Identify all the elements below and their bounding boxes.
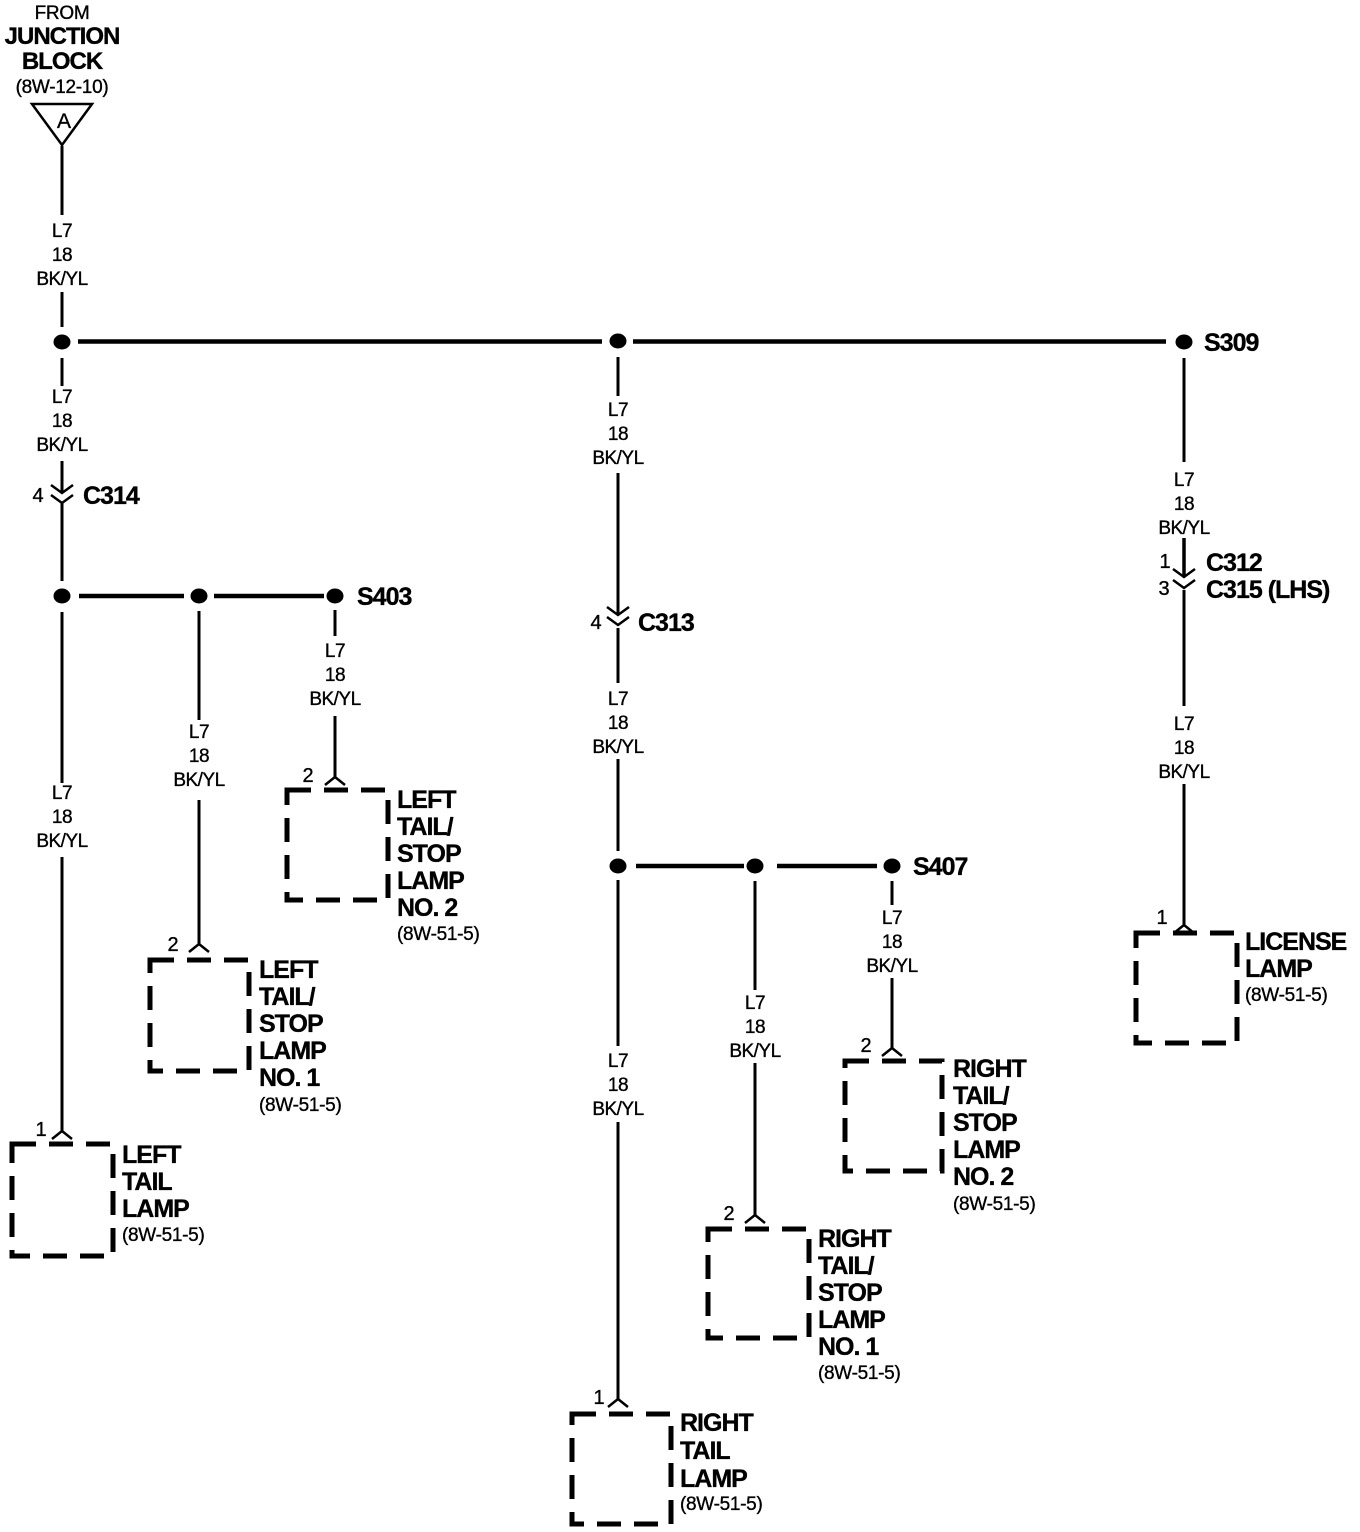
svg-text:TAIL/: TAIL/ — [818, 1252, 875, 1280]
svg-text:L7: L7 — [608, 400, 628, 421]
svg-text:BLOCK: BLOCK — [22, 48, 104, 75]
svg-text:18: 18 — [52, 807, 72, 828]
svg-text:18: 18 — [52, 411, 72, 432]
svg-text:L7: L7 — [1174, 470, 1194, 491]
svg-text:LAMP: LAMP — [122, 1195, 189, 1223]
svg-text:18: 18 — [52, 245, 72, 266]
svg-text:BK/YL: BK/YL — [1158, 518, 1209, 539]
svg-text:LICENSE: LICENSE — [1245, 928, 1347, 956]
svg-text:L7: L7 — [52, 783, 72, 804]
svg-text:BK/YL: BK/YL — [1158, 762, 1209, 783]
svg-text:BK/YL: BK/YL — [173, 770, 224, 791]
svg-text:TAIL/: TAIL/ — [259, 983, 316, 1011]
svg-text:18: 18 — [608, 424, 628, 445]
svg-text:LAMP: LAMP — [397, 867, 464, 895]
svg-text:(8W-51-5): (8W-51-5) — [122, 1225, 204, 1246]
svg-text:18: 18 — [1174, 494, 1194, 515]
svg-text:1: 1 — [1159, 551, 1170, 573]
svg-text:STOP: STOP — [953, 1109, 1017, 1137]
svg-text:(8W-12-10): (8W-12-10) — [16, 77, 109, 98]
svg-text:A: A — [57, 110, 71, 133]
svg-text:LEFT: LEFT — [397, 786, 456, 814]
svg-text:JUNCTION: JUNCTION — [5, 23, 120, 50]
svg-text:2: 2 — [860, 1035, 871, 1057]
svg-text:NO. 2: NO. 2 — [397, 894, 457, 922]
svg-text:C315 (LHS): C315 (LHS) — [1206, 576, 1330, 604]
svg-text:BK/YL: BK/YL — [866, 956, 917, 977]
svg-text:L7: L7 — [52, 387, 72, 408]
svg-text:2: 2 — [723, 1203, 734, 1225]
svg-text:C314: C314 — [83, 482, 140, 510]
svg-text:NO. 2: NO. 2 — [953, 1163, 1013, 1191]
svg-text:LAMP: LAMP — [1245, 955, 1312, 983]
svg-text:BK/YL: BK/YL — [592, 737, 643, 758]
svg-text:1: 1 — [35, 1119, 46, 1141]
svg-text:3: 3 — [1158, 578, 1169, 600]
svg-text:LEFT: LEFT — [122, 1141, 181, 1169]
svg-text:(8W-51-5): (8W-51-5) — [818, 1363, 900, 1384]
svg-text:(8W-51-5): (8W-51-5) — [680, 1494, 762, 1515]
svg-text:RIGHT: RIGHT — [818, 1225, 892, 1253]
svg-text:STOP: STOP — [397, 840, 461, 868]
svg-text:4: 4 — [32, 485, 43, 507]
svg-text:L7: L7 — [1174, 714, 1194, 735]
svg-text:NO. 1: NO. 1 — [259, 1064, 320, 1092]
svg-text:TAIL: TAIL — [680, 1437, 730, 1465]
svg-text:BK/YL: BK/YL — [592, 1099, 643, 1120]
svg-text:TAIL/: TAIL/ — [397, 813, 454, 841]
svg-text:BK/YL: BK/YL — [729, 1041, 780, 1062]
svg-text:18: 18 — [325, 665, 345, 686]
svg-text:BK/YL: BK/YL — [36, 435, 87, 456]
svg-text:STOP: STOP — [259, 1010, 323, 1038]
svg-text:18: 18 — [608, 1075, 628, 1096]
svg-text:TAIL/: TAIL/ — [953, 1082, 1010, 1110]
svg-text:1: 1 — [1156, 907, 1167, 929]
svg-text:C313: C313 — [638, 609, 694, 637]
svg-text:RIGHT: RIGHT — [680, 1409, 754, 1437]
svg-text:4: 4 — [590, 612, 601, 634]
svg-text:2: 2 — [167, 934, 178, 956]
svg-text:LEFT: LEFT — [259, 956, 318, 984]
svg-text:LAMP: LAMP — [818, 1306, 885, 1334]
svg-text:18: 18 — [189, 746, 209, 767]
svg-text:2: 2 — [302, 765, 313, 787]
svg-text:BK/YL: BK/YL — [592, 448, 643, 469]
svg-text:STOP: STOP — [818, 1279, 882, 1307]
svg-text:S403: S403 — [357, 583, 411, 611]
svg-text:NO. 1: NO. 1 — [818, 1333, 879, 1361]
svg-text:L7: L7 — [608, 689, 628, 710]
svg-text:L7: L7 — [325, 641, 345, 662]
svg-text:L7: L7 — [189, 722, 209, 743]
svg-text:18: 18 — [745, 1017, 765, 1038]
svg-text:18: 18 — [1174, 738, 1194, 759]
svg-text:1: 1 — [593, 1387, 604, 1409]
svg-text:TAIL: TAIL — [122, 1168, 172, 1196]
svg-text:LAMP: LAMP — [953, 1136, 1020, 1164]
svg-text:L7: L7 — [52, 221, 72, 242]
svg-text:18: 18 — [608, 713, 628, 734]
svg-text:BK/YL: BK/YL — [36, 269, 87, 290]
svg-text:(8W-51-5): (8W-51-5) — [397, 924, 479, 945]
svg-text:S407: S407 — [913, 853, 967, 881]
svg-text:C312: C312 — [1206, 549, 1262, 577]
svg-text:S309: S309 — [1204, 329, 1258, 357]
svg-text:BK/YL: BK/YL — [309, 689, 360, 710]
svg-text:L7: L7 — [882, 908, 902, 929]
svg-text:LAMP: LAMP — [680, 1465, 747, 1493]
svg-text:L7: L7 — [608, 1051, 628, 1072]
svg-text:18: 18 — [882, 932, 902, 953]
svg-text:RIGHT: RIGHT — [953, 1055, 1027, 1083]
svg-text:(8W-51-5): (8W-51-5) — [1245, 985, 1327, 1006]
svg-text:FROM: FROM — [35, 3, 90, 24]
svg-text:LAMP: LAMP — [259, 1037, 326, 1065]
svg-text:(8W-51-5): (8W-51-5) — [259, 1095, 341, 1116]
svg-text:(8W-51-5): (8W-51-5) — [953, 1194, 1035, 1215]
svg-text:L7: L7 — [745, 993, 765, 1014]
svg-text:BK/YL: BK/YL — [36, 831, 87, 852]
